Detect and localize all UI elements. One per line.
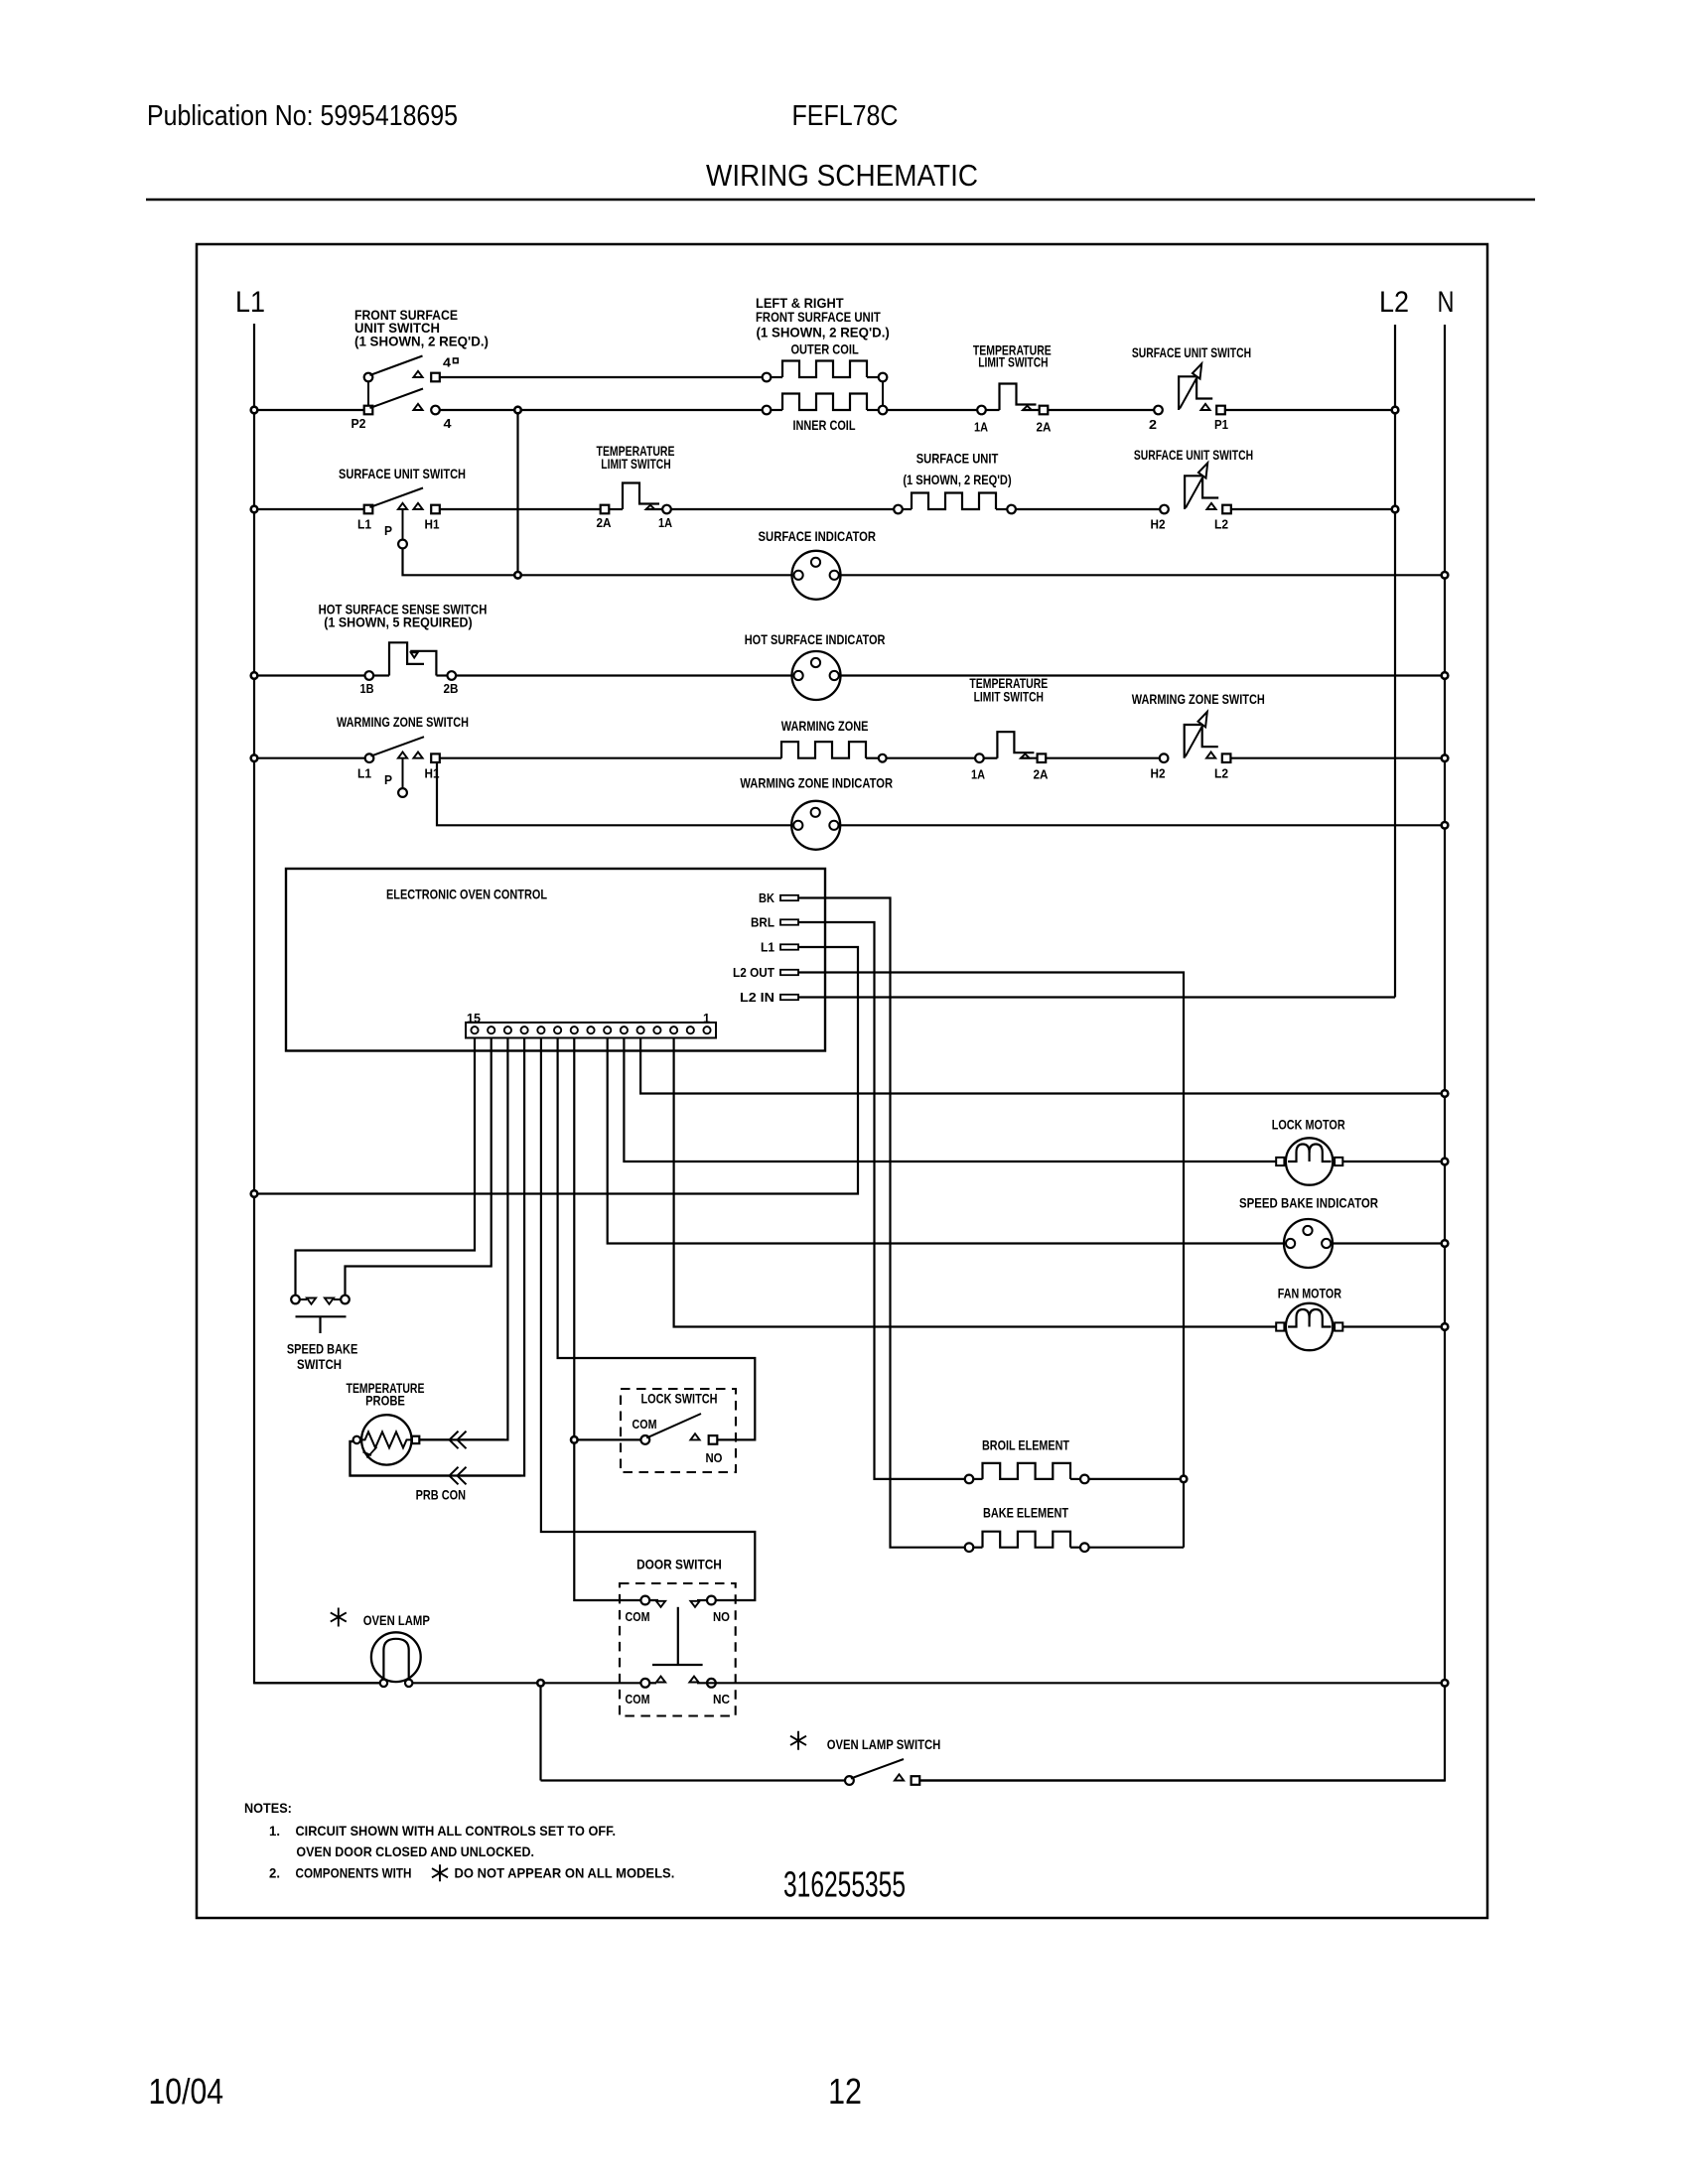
svg-text:SURFACE UNIT SWITCH: SURFACE UNIT SWITCH [1134,447,1253,463]
svg-text:P: P [384,523,392,538]
wire bake to L2OUT riser [1089,1547,1184,1549]
label P1 [1214,417,1228,432]
wire lower chevron to pin12 riser [461,1474,521,1476]
svg-text:WARMING ZONE SWITCH: WARMING ZONE SWITCH [1132,691,1265,707]
svg-text:L1: L1 [357,766,371,781]
svg-text:(1 SHOWN, 2 REQ'D.): (1 SHOWN, 2 REQ'D.) [757,325,890,341]
label LEFT & RIGHT FRONT SURFACE UNIT [756,295,890,341]
wire probe lower loop [351,1441,450,1476]
svg-text:2.: 2. [269,1865,280,1881]
wire L1 bus [254,324,381,1683]
svg-text:SPEED BAKE INDICATOR: SPEED BAKE INDICATOR [1239,1194,1378,1210]
svg-text:L1: L1 [357,517,371,532]
block DOOR SWITCH dashed box [620,1583,736,1716]
svg-text:(1 SHOWN, 5 REQUIRED): (1 SHOWN, 5 REQUIRED) [324,614,472,630]
wire N bus [919,325,1445,1781]
wire L1 pin to L1 bus [256,947,858,1194]
label H1 row5 [425,766,440,781]
label WARMING ZONE [781,718,869,734]
svg-text:1: 1 [703,1012,710,1025]
wire 1A to surface unit coil [671,508,894,510]
label WARMING ZONE SWITCH right [1132,691,1265,707]
wire 2A to warming zone switch [1046,757,1160,759]
label 2 [1149,417,1157,432]
resistor TEMPERATURE PROBE [353,1415,420,1464]
wire pin5 to N [640,1038,1445,1094]
svg-text:SURFACE UNIT: SURFACE UNIT [916,451,999,467]
label NO lock [706,1450,723,1465]
svg-text:OVEN DOOR CLOSED AND UNLOCKED.: OVEN DOOR CLOSED AND UNLOCKED. [296,1843,534,1859]
svg-text:WARMING ZONE INDICATOR: WARMING ZONE INDICATOR [740,775,893,791]
svg-text:Publication No: 5995418695: Publication No: 5995418695 [147,100,458,132]
svg-text:15: 15 [467,1012,481,1025]
svg-text:L2: L2 [1214,517,1228,532]
junction lamp row/N [1442,1680,1449,1687]
svg-text:SWITCH: SWITCH [297,1356,342,1372]
svg-text:1A: 1A [658,515,673,530]
svg-text:ELECTRONIC OVEN CONTROL: ELECTRONIC OVEN CONTROL [386,887,547,902]
wire pin12 to probe return [351,1038,525,1476]
wire to lock COM [578,1438,641,1440]
label BROIL ELEMENT [982,1437,1069,1453]
label SPEED BAKE SWITCH [287,1341,358,1373]
svg-text:LOCK SWITCH: LOCK SWITCH [641,1391,718,1407]
motor FAN MOTOR [1276,1303,1342,1350]
text model FEFL78C [792,100,899,132]
svg-text:WARMING ZONE SWITCH: WARMING ZONE SWITCH [337,714,469,730]
label BAKE ELEMENT [983,1505,1068,1521]
switch FRONT SURFACE UNIT SWITCH (P2/4/4a) [364,356,440,415]
wire row1 L1 to switch [256,409,364,411]
label 1A row1 [974,420,989,435]
label FRONT SURFACE UNIT SWITCH [354,307,489,349]
svg-text:H2: H2 [1151,517,1166,532]
wire L2 to L2 bus [1231,508,1395,510]
wire fan motor to N [1343,1325,1445,1327]
svg-text:WIRING SCHEMATIC: WIRING SCHEMATIC [706,158,978,193]
svg-text:12: 12 [828,2071,862,2112]
label SURFACE INDICATOR [759,528,877,544]
wire pin9 to door switch COM [574,1038,640,1601]
wire L2 OUT [798,973,1184,1548]
label 2B [444,681,459,696]
wire L2 bus [1394,325,1396,998]
label H2 row2 [1151,517,1166,532]
svg-text:PRB CON: PRB CON [416,1487,466,1503]
svg-text:2A: 2A [597,515,613,530]
svg-text:H2: H2 [1151,766,1166,781]
wire indicator to N [841,574,1445,576]
svg-text:L1: L1 [235,286,265,319]
wire pin6 to lock motor row [624,1038,1276,1162]
label 2A row1 [1037,420,1053,435]
wire pin15 to speed bake switch [296,1038,476,1296]
switch TEMPERATURE LIMIT SWITCH row5 (1A/2A) [975,732,1046,762]
label pin 15 [467,1012,481,1025]
coil INNER COIL [763,394,888,415]
label P row5 [384,772,392,787]
svg-text:HOT SURFACE INDICATOR: HOT SURFACE INDICATOR [745,631,886,647]
junction L1/row2 [251,506,258,513]
label TEMPERATURE LIMIT SWITCH row2 [597,443,675,472]
switch DOOR SWITCH upper (COM/NO) [640,1596,715,1607]
switch WARMING ZONE SWITCH (L1/P/H1) [365,737,440,797]
wire 4 to inner coil [440,409,763,411]
switch SPEED BAKE SWITCH [291,1296,350,1333]
svg-text:1A: 1A [971,767,986,782]
label 2A row5r [1034,767,1050,782]
wire H1 down to indicator row [437,762,793,825]
switch TEMPERATURE LIMIT SWITCH row1 (1A/2A) [977,384,1048,415]
junction L1/row1 [251,407,258,414]
junction lamp row/switch stub [537,1680,544,1687]
svg-text:OVEN LAMP: OVEN LAMP [363,1612,430,1628]
wire lamp switch row left [541,1779,846,1781]
wire lamp to door switch [412,1682,640,1684]
svg-text:SPEED BAKE: SPEED BAKE [287,1341,358,1357]
svg-text:L2: L2 [1214,766,1228,781]
connector terminal strip P1-P15 [466,1023,716,1038]
connector PRB CON lower [450,1467,467,1485]
label SURFACE UNIT SWITCH row2-left [339,466,466,481]
svg-text:BRL: BRL [751,916,774,930]
svg-text:COMPONENTS WITH: COMPONENTS WITH [296,1865,412,1881]
wire 2B to hot surface indicator [456,674,791,676]
wire lamp row left [254,1682,380,1684]
label COM door upper [626,1609,650,1624]
svg-text:NO: NO [706,1450,723,1465]
block LOCK SWITCH dashed box [621,1389,736,1472]
junction row6/N [1442,822,1449,829]
label pin 1 [703,1012,710,1025]
svg-text:OVEN LAMP SWITCH: OVEN LAMP SWITCH [827,1736,941,1752]
label 1A row2 [658,515,673,530]
label L2 OUT [733,966,774,980]
wire H1 to 2A [440,508,601,510]
svg-text:COM: COM [626,1692,650,1706]
switch HOT SURFACE SENSE SWITCH (1B/2B) [365,642,457,680]
label 2A row2 [597,515,613,530]
label SPEED BAKE INDICATOR [1239,1194,1378,1210]
svg-text:P1: P1 [1214,417,1228,432]
svg-text:FRONT SURFACE UNIT: FRONT SURFACE UNIT [756,309,881,325]
svg-text:(1 SHOWN, 2 REQ'D.): (1 SHOWN, 2 REQ'D.) [354,334,489,349]
svg-text:COM: COM [626,1609,650,1624]
junction lock motor/N [1442,1159,1449,1165]
motor LOCK MOTOR [1276,1138,1342,1184]
label L2 row5 [1214,766,1228,781]
svg-text:NO: NO [713,1609,730,1624]
schematic border frame [197,244,1487,1918]
svg-text:NOTES:: NOTES: [244,1800,292,1816]
junction row3/vertical [514,572,521,579]
wire lock motor to N [1343,1160,1445,1162]
junction fan motor/N [1442,1323,1449,1330]
junction L1/row4 [251,672,258,679]
wire row2 L1 to switch [256,508,364,510]
wire pin7 to speed bake indicator row [608,1038,1284,1244]
junction L1/row5 [251,754,258,761]
label L1 pin [761,941,774,955]
wire BRL to broil element [798,922,965,1479]
label BK [759,891,774,905]
label TEMPERATURE PROBE [347,1380,425,1409]
label HOT SURFACE INDICATOR [745,631,886,647]
svg-text:1.: 1. [269,1823,280,1839]
svg-text:OUTER COIL: OUTER COIL [790,341,859,357]
wire P to indicator row [403,548,515,575]
label NOTES asterisk [432,1864,448,1881]
label DOOR SWITCH [636,1557,722,1572]
svg-text:316255355: 316255355 [783,1864,906,1905]
wire chevron to pin13 riser [461,1438,504,1440]
switch SURFACE UNIT SWITCH row1 (2/P1) [1154,363,1225,414]
label H1 term [425,517,440,532]
coil OUTER COIL [763,361,888,382]
svg-text:N: N [1438,286,1455,319]
label SURFACE UNIT [903,451,1011,488]
label LOCK SWITCH [641,1391,718,1407]
label COM lock [633,1417,657,1432]
junction broil/L2OUT [1181,1476,1188,1483]
header rule [146,199,1535,202]
label WARMING ZONE SWITCH left [337,714,469,730]
wire row5 L1 to switch [256,757,365,759]
label NC door lower [713,1692,731,1706]
label LOCK MOTOR [1272,1116,1345,1132]
label OUTER COIL [790,341,859,357]
svg-text:SURFACE INDICATOR: SURFACE INDICATOR [759,528,877,544]
label OVEN LAMP [331,1608,430,1629]
wire 2A to surface unit switch [1048,409,1154,411]
text publication number [147,100,458,132]
svg-text:LIMIT SWITCH: LIMIT SWITCH [978,354,1048,370]
indicator HOT SURFACE INDICATOR [792,651,841,700]
switch LOCK SWITCH (COM/NO) [640,1414,717,1444]
switch WARMING ZONE SWITCH (H2/L2) [1160,712,1231,762]
svg-text:LIMIT SWITCH: LIMIT SWITCH [974,689,1044,705]
svg-text:BAKE ELEMENT: BAKE ELEMENT [983,1505,1068,1521]
junction pin5/N [1442,1090,1449,1097]
label INNER COIL [793,417,856,433]
switch SURFACE UNIT SWITCH row2 (H2/L2) [1160,463,1231,513]
label NOTES line2 tail [455,1865,675,1881]
indicator SURFACE INDICATOR [792,551,841,600]
wire BK to bake element [798,898,965,1548]
wire pin13 to temperature probe [419,1038,507,1440]
label SURFACE UNIT SWITCH row1 [1132,344,1251,360]
text date 10/04 [149,2071,224,2112]
junction row1/vertical [514,407,521,414]
pin L2 IN terminal [780,995,798,1000]
svg-text:L1: L1 [761,941,774,955]
label BRL [751,916,774,930]
wire stub to lamp switch row [539,1687,541,1781]
junction pin9/lock COM wire [571,1436,578,1443]
wire pin3 to fan motor row [674,1038,1286,1327]
wire row3 to indicator [521,574,791,576]
junction row1/L2 [1392,407,1399,414]
label L2 row2 [1214,517,1228,532]
wire speed bake indicator to N [1333,1242,1445,1244]
svg-text:H1: H1 [425,517,440,532]
heater BROIL ELEMENT [965,1463,1089,1483]
switch SURFACE UNIT SWITCH (L1/P/H1) [364,488,440,549]
svg-text:2A: 2A [1037,420,1053,435]
wire pin10 to lock switch NO [558,1038,756,1440]
label NO door upper [713,1609,730,1624]
label P2 [352,416,366,431]
svg-text:FEFL78C: FEFL78C [792,100,899,132]
wire pin14 to speed bake switch [346,1038,492,1296]
label TEMPERATURE LIMIT SWITCH row1 [973,341,1052,369]
svg-text:SURFACE UNIT SWITCH: SURFACE UNIT SWITCH [339,466,466,481]
svg-text:INNER COIL: INNER COIL [793,417,856,433]
label NOTES [244,1800,616,1881]
wire row1 down to indicator row [516,413,518,575]
block ELECTRONIC OVEN CONTROL box [286,869,825,1051]
label FAN MOTOR [1278,1285,1341,1300]
svg-text:PROBE: PROBE [365,1393,405,1409]
indicator WARMING ZONE INDICATOR [791,801,840,850]
label ELECTRONIC OVEN CONTROL [386,887,547,902]
wire pin11 to door switch NO [541,1038,755,1601]
label WARMING ZONE INDICATOR [740,775,893,791]
svg-text:WARMING ZONE: WARMING ZONE [781,718,869,734]
junction speed bake/N [1442,1240,1449,1247]
svg-text:LOCK MOTOR: LOCK MOTOR [1272,1116,1345,1132]
svg-text:L2 OUT: L2 OUT [733,966,774,980]
label P term [384,523,392,538]
indicator SPEED BAKE INDICATOR [1284,1219,1333,1268]
svg-text:4: 4 [444,416,453,431]
wire L2 to N row5 [1230,757,1445,759]
label L1 row5 [357,766,371,781]
wire door lower to N [697,1682,1445,1684]
svg-text:FAN MOTOR: FAN MOTOR [1278,1285,1341,1300]
wire warming indicator to N [840,824,1445,826]
pin BK terminal [780,895,798,900]
coil WARMING ZONE [781,742,887,761]
text page 12 [828,2071,862,2112]
svg-text:2A: 2A [1034,767,1050,782]
heater BAKE ELEMENT [965,1532,1089,1552]
label L2 IN [740,991,774,1005]
wire inner coil to 1A [887,409,977,411]
label H2 row5 [1151,766,1166,781]
wire coil to H2 [1016,508,1160,510]
svg-text:SURFACE UNIT SWITCH: SURFACE UNIT SWITCH [1132,344,1251,360]
wire door COM segment [649,1682,656,1684]
pin BRL terminal [780,919,798,924]
pin L2 OUT terminal [780,970,798,975]
switch DOOR SWITCH lower (COM/NC) [640,1677,715,1688]
text title WIRING SCHEMATIC [706,158,978,193]
svg-text:(1 SHOWN, 2 REQ'D): (1 SHOWN, 2 REQ'D) [903,472,1011,487]
label HOT SURFACE SENSE SWITCH [319,602,488,630]
label 1B [360,681,374,696]
node N [1438,286,1455,319]
label SURFACE UNIT SWITCH row2-right [1134,447,1253,463]
wire coil to 1A row5 [887,757,976,759]
label 4 (lower contact) [444,416,453,431]
svg-text:L2 IN: L2 IN [740,991,774,1005]
wire L2 IN [798,996,1395,998]
svg-text:DOOR SWITCH: DOOR SWITCH [636,1557,722,1572]
wire 4a to outer coil [440,376,763,378]
connector PRB CON upper [450,1432,467,1449]
svg-text:1B: 1B [360,681,374,696]
label L1 term [357,517,371,532]
svg-text:1A: 1A [974,420,989,435]
svg-text:2B: 2B [444,681,459,696]
wire row4 L1 to 1B [256,674,364,676]
lamp OVEN LAMP [371,1632,421,1687]
svg-text:CIRCUIT SHOWN WITH ALL CONTROL: CIRCUIT SHOWN WITH ALL CONTROLS SET TO O… [296,1823,617,1839]
wire broil to L2OUT riser [1089,1478,1184,1480]
node L1 [235,286,265,319]
switch OVEN LAMP SWITCH [845,1759,919,1785]
actuator DOOR SWITCH plunger [652,1607,703,1665]
wire probe to chevron upper [419,1438,449,1440]
wire coil link [882,382,884,406]
junction row3/N [1442,572,1449,579]
wire lamp switch to N [919,1779,1445,1781]
label COM door lower [626,1692,650,1706]
svg-text:10/04: 10/04 [149,2071,224,2112]
pin L1 terminal [780,944,798,949]
svg-text:2: 2 [1149,417,1157,432]
label 4a (upper contact) [443,355,458,370]
junction L1/eoc [251,1190,258,1197]
svg-text:LIMIT SWITCH: LIMIT SWITCH [601,456,670,472]
label TEMPERATURE LIMIT SWITCH row5 [969,675,1048,705]
junction row4/N [1442,672,1449,679]
label PRB CON [416,1487,466,1503]
coil SURFACE UNIT [894,493,1016,514]
svg-text:BROIL ELEMENT: BROIL ELEMENT [982,1437,1069,1453]
junction row2/L2 [1392,506,1399,513]
wire H1 to warming zone coil [440,757,781,759]
svg-text:COM: COM [633,1417,657,1432]
wire hot surface indicator to N [841,674,1445,676]
svg-text:NC: NC [713,1692,731,1706]
svg-text:L2: L2 [1379,286,1409,319]
junction row5/N [1442,754,1449,761]
svg-text:BK: BK [759,891,774,905]
svg-text:P: P [384,772,392,787]
svg-text:4: 4 [443,355,452,370]
svg-text:P2: P2 [352,416,366,431]
node L2 [1379,286,1409,319]
wire P1 to L2 [1225,409,1395,411]
label OVEN LAMP SWITCH [790,1731,940,1752]
text part number 316255355 [783,1864,906,1905]
switch TEMPERATURE LIMIT SWITCH row2 (2A/1A) [601,483,671,514]
svg-text:DO NOT APPEAR ON ALL MODELS.: DO NOT APPEAR ON ALL MODELS. [455,1865,675,1881]
label 1A row5r [971,767,986,782]
